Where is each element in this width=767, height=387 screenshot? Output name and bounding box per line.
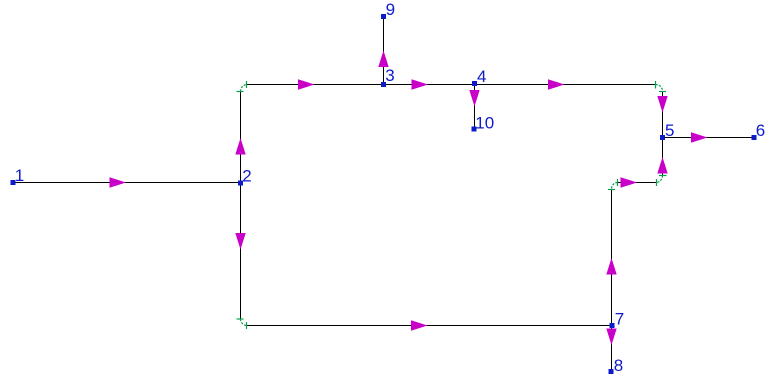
flow arrow on wire 1-2 xyxy=(110,177,127,187)
wire 1-2 xyxy=(13,182,241,184)
node 7 xyxy=(610,323,615,328)
flow arrow E4-E3 horizontal xyxy=(621,177,638,187)
svg-text:9: 9 xyxy=(386,0,395,19)
svg-text:3: 3 xyxy=(385,66,394,85)
flow arrow 3-4 xyxy=(412,79,429,89)
flow arrow below node 2 (down) xyxy=(235,233,245,250)
flow arrow 4-10 (down) xyxy=(469,90,479,107)
node 1 xyxy=(11,180,16,185)
node 8 xyxy=(609,369,614,374)
flow arrow E1-3 xyxy=(298,79,315,89)
elbow fitting E4 S-bend bottom xyxy=(608,179,618,190)
node 3 xyxy=(381,82,386,87)
flow arrow above node 2 (up) xyxy=(235,138,245,155)
svg-text:7: 7 xyxy=(615,309,624,328)
elbow fitting E3 right S-bend top xyxy=(656,176,667,187)
svg-text:8: 8 xyxy=(614,356,623,375)
flow arrow 3-9 (up) xyxy=(378,51,388,68)
svg-text:10: 10 xyxy=(475,114,494,133)
svg-text:6: 6 xyxy=(756,121,765,140)
flow arrow up toward 5 on S-bend xyxy=(657,157,667,174)
flow arrow 7-E4 (up) xyxy=(606,258,616,275)
wire 5-6 xyxy=(663,137,755,139)
wire 5-E3 xyxy=(662,140,664,175)
wire E4-7 vertical xyxy=(611,190,613,324)
wire vertical through node 2 (elbow E1 to elbow E5) xyxy=(240,92,242,320)
node 4 xyxy=(472,81,477,86)
flow arrow 5-6 xyxy=(691,132,708,142)
elbow fitting E2 top-right xyxy=(656,81,667,92)
svg-text:5: 5 xyxy=(665,121,674,140)
elbow fitting E1 top-left xyxy=(237,81,247,92)
node 5 xyxy=(660,135,665,140)
flow arrow 7-8 (down) xyxy=(606,329,616,346)
node 9 xyxy=(381,14,386,19)
elbow fitting E5 bottom-left xyxy=(237,319,248,329)
wire top horizontal E1-3-4-E2 xyxy=(247,84,656,86)
flow arrow 4-E2 xyxy=(548,79,565,89)
flow arrow E2-5 (down) xyxy=(657,96,667,113)
svg-text:2: 2 xyxy=(242,166,251,185)
wire bottom E5-7 xyxy=(247,325,610,327)
wire 4-10 xyxy=(474,86,476,127)
wire E4-E3 horizontal xyxy=(618,182,657,184)
wire E2-5 xyxy=(662,92,664,136)
svg-text:1: 1 xyxy=(15,166,24,185)
wire 7-8 xyxy=(611,328,613,369)
flow arrow bottom E5-7 xyxy=(411,320,428,330)
node 2 xyxy=(238,181,243,186)
wire 9-3 xyxy=(383,19,385,82)
node 10 xyxy=(472,127,477,132)
svg-text:4: 4 xyxy=(477,67,486,86)
node 6 xyxy=(752,135,757,140)
